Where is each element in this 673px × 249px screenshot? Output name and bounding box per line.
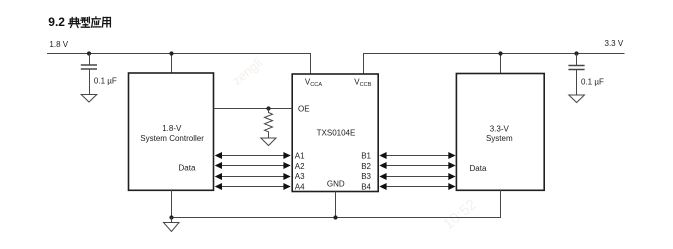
junction dot OE [266,106,270,110]
IC U1 TXS0104E [292,74,378,192]
型 [81,17,90,27]
capacitor C2 0.1uF [568,54,584,96]
junction dot C1 on 1.8V rail [87,51,91,55]
wire data A3 (bidirectional arrow) [215,173,291,180]
用 [103,18,111,27]
svg-text:0.1 µF: 0.1 µF [581,77,604,86]
heading 典型应用 (drawn glyphs) [69,17,111,28]
wire left box ground drop [171,190,173,217]
wire data B3 (bidirectional arrow) [379,173,455,180]
svg-text:B2: B2 [361,162,371,171]
wire chip GND drop [335,192,337,218]
label 3.3-V System [486,124,513,143]
svg-text:B1: B1 [361,152,371,161]
svg-text:3.3-V: 3.3-V [490,124,510,133]
svg-text:1.8-V: 1.8-V [162,124,182,133]
svg-text:0.1 µF: 0.1 µF [94,77,117,86]
junction dot chip GND [333,215,337,219]
junction dot left box supply [169,51,173,55]
junction dot right box supply [498,51,502,55]
label 1.8-V System Controller [140,124,204,143]
svg-text:System Controller: System Controller [140,134,204,143]
svg-text:3.3 V: 3.3 V [605,39,624,48]
wire data A1 (bidirectional arrow) [215,152,291,159]
典 [69,18,81,28]
wire OE net [214,108,293,110]
svg-text:9.2: 9.2 [48,15,65,29]
wire data B4 (bidirectional arrow) [379,183,455,190]
svg-text:TXS0104E: TXS0104E [317,129,356,138]
wire left box supply drop [171,54,173,74]
svg-text:Data: Data [179,164,196,173]
wire data A4 (bidirectional arrow) [215,183,291,190]
wire data B2 (bidirectional arrow) [379,162,455,169]
capacitor C1 0.1uF [81,54,97,95]
wire right box supply drop [500,54,502,75]
junction dot C2 on 3.3V rail [574,51,578,55]
ground bottom [164,223,180,232]
block right: 3.3-V System [456,74,544,191]
svg-text:A2: A2 [295,162,305,171]
resistor R1 (OE pull-down) [265,109,273,139]
svg-text:1.8 V: 1.8 V [49,40,68,49]
wire 3.3V rail [364,54,625,75]
应 [92,17,101,27]
svg-text:Data: Data [470,164,487,173]
svg-text:A4: A4 [295,182,305,191]
wire stub dot to bottom ground [171,218,173,223]
svg-text:10:52: 10:52 [440,196,480,233]
svg-text:OE: OE [298,104,310,113]
ground below C2 [569,95,585,103]
ground below C1 [81,95,97,103]
wire data A2 (bidirectional arrow) [215,162,291,169]
ground below R1 [261,138,276,146]
block left: 1.8-V System Controller [129,73,214,190]
svg-text:GND: GND [327,180,345,189]
svg-text:A3: A3 [295,172,305,181]
svg-text:B4: B4 [361,182,371,191]
junction dot bottom-left ground [169,215,173,219]
svg-text:System: System [486,134,513,143]
wire data B1 (bidirectional arrow) [379,152,455,159]
svg-text:B3: B3 [361,172,371,181]
wire bottom ground rail [172,190,501,217]
svg-text:zengli: zengli [229,55,265,88]
wire 1.8V rail [47,54,311,75]
svg-text:A1: A1 [295,152,305,161]
